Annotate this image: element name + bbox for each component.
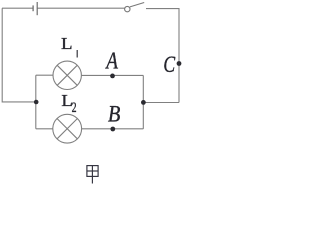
- svg-text:C: C: [163, 52, 176, 78]
- svg-text:2: 2: [72, 99, 77, 116]
- svg-text:L: L: [61, 34, 73, 53]
- svg-text:B: B: [108, 101, 120, 126]
- svg-text:A: A: [104, 46, 118, 74]
